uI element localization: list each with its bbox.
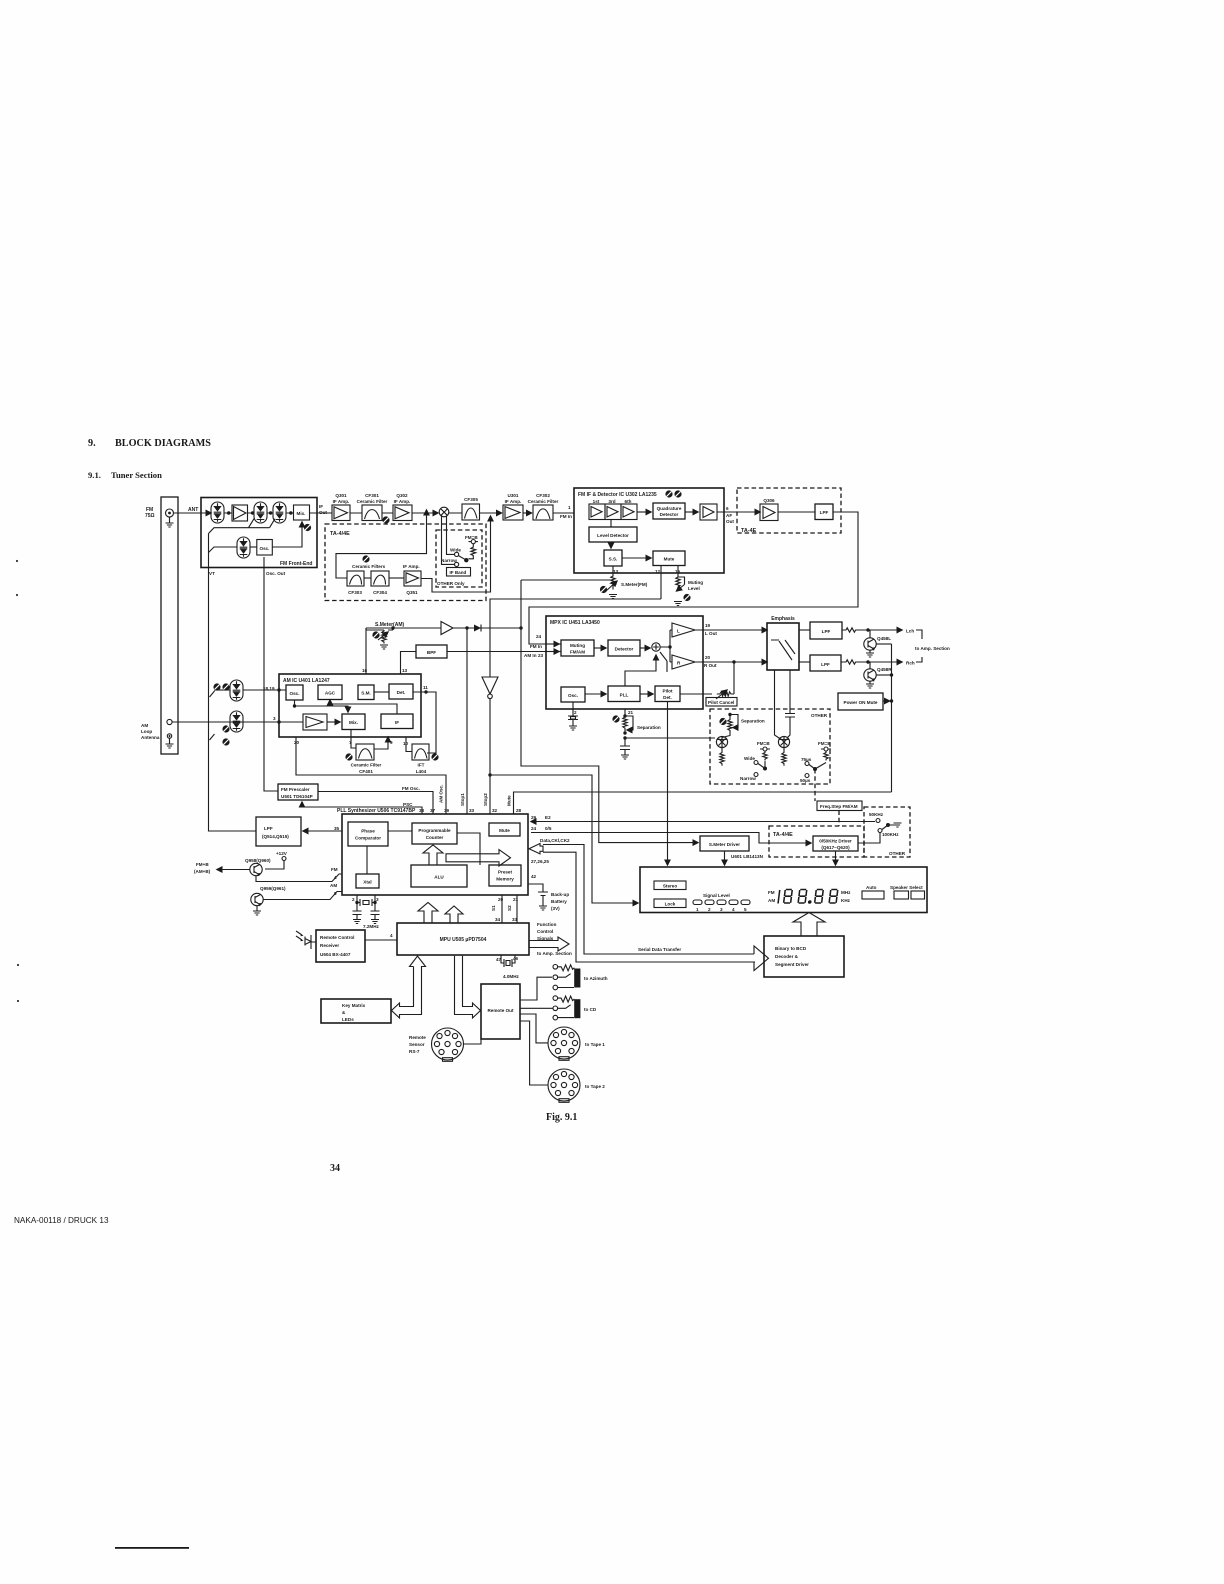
- Stop2 vertical label: [483, 793, 488, 806]
- svg-text:16: 16: [362, 668, 368, 673]
- trimmer pair in FM IF box: [665, 490, 681, 497]
- block arrows MPU-PLL: [418, 903, 463, 924]
- transistor Q959 Q961: [251, 883, 342, 915]
- emphasis cap wires into other box: [775, 670, 796, 739]
- svg-text:OTHER: OTHER: [811, 713, 828, 718]
- pilot cancel pot: [680, 660, 736, 699]
- svg-text:Fig. 9.1: Fig. 9.1: [546, 1112, 577, 1123]
- svg-text:Sensor: Sensor: [409, 1042, 425, 1047]
- MPX Detector block: [594, 640, 640, 656]
- svg-text:Muting: Muting: [570, 643, 585, 648]
- svg-text:R: R: [677, 661, 681, 666]
- S.M. block: [358, 685, 374, 700]
- svg-text:Ceramic Filter: Ceramic Filter: [351, 763, 382, 768]
- CF303: [347, 571, 364, 595]
- svg-text:RS-7: RS-7: [409, 1049, 420, 1054]
- mixer block Mix.: [294, 505, 310, 520]
- svg-text:33: 33: [469, 808, 475, 813]
- svg-text:Osc.: Osc.: [260, 546, 270, 551]
- svg-text:Ceramic Filter: Ceramic Filter: [357, 499, 388, 504]
- dual gang pot 2: [778, 736, 789, 765]
- svg-text:Memory: Memory: [496, 877, 514, 882]
- local osc varactor: [237, 537, 250, 558]
- IFT L404: [412, 744, 429, 774]
- pin 13 s-meter pot: [600, 566, 648, 599]
- IF amp 1st: [589, 499, 605, 520]
- svg-text:TA-4/4E: TA-4/4E: [330, 531, 350, 537]
- wire VT tuning line down to LPF: [209, 534, 257, 832]
- svg-text:LPF: LPF: [822, 629, 831, 634]
- wide narrow switch other: [740, 741, 770, 781]
- svg-text:2: 2: [708, 907, 711, 912]
- wire counter to mute: [457, 833, 480, 865]
- Speaker Select buttons: [890, 885, 925, 899]
- varactor 1 trimmers: [213, 683, 229, 690]
- svg-text:38: 38: [419, 808, 425, 813]
- Mute block pll: [489, 823, 520, 836]
- svg-text:Speaker Select: Speaker Select: [890, 885, 923, 890]
- Muting FM/AM block: [546, 640, 594, 656]
- svg-text:1: 1: [696, 907, 699, 912]
- svg-text:Programmable: Programmable: [418, 828, 451, 833]
- bottom pins 2 3 crystal: [352, 895, 380, 929]
- svg-text:Pilot Cancel: Pilot Cancel: [708, 700, 734, 705]
- svg-text:Signal Level: Signal Level: [703, 893, 730, 898]
- svg-text:FM IF & Detector IC U302 LA123: FM IF & Detector IC U302 LA1235: [578, 492, 657, 498]
- svg-text:FM In: FM In: [560, 514, 572, 519]
- svg-text:20: 20: [294, 740, 300, 745]
- ALU block: [411, 865, 467, 887]
- svg-text:37: 37: [430, 808, 436, 813]
- svg-text:29: 29: [531, 815, 537, 820]
- svg-text:Q351: Q351: [406, 590, 418, 595]
- Freq Step FM/AM label box: [817, 801, 862, 811]
- pin 13 label: [402, 668, 408, 673]
- svg-text:FM Prescaler: FM Prescaler: [281, 787, 310, 792]
- svg-text:AGC: AGC: [325, 691, 336, 696]
- svg-text:S.Meter Driver: S.Meter Driver: [709, 842, 740, 847]
- svg-text:CF301: CF301: [365, 493, 379, 498]
- IF amp 6th: [621, 499, 637, 520]
- svg-text:Rch: Rch: [906, 661, 915, 666]
- svg-text:+12V: +12V: [276, 851, 288, 856]
- wire 0/50 driver to display: [835, 851, 837, 865]
- AGC block: [318, 685, 342, 700]
- svg-text:S.S.: S.S.: [609, 557, 618, 562]
- svg-text:Detector: Detector: [615, 647, 634, 652]
- svg-text:9: 9: [390, 740, 393, 745]
- svg-text:Key Matrix: Key Matrix: [342, 1003, 366, 1008]
- Remote Out block: [481, 984, 520, 1039]
- pin 11 wire to IFT: [413, 685, 436, 753]
- wire BPF input from AM det pin 13: [401, 652, 417, 675]
- svg-text:FM Front-End: FM Front-End: [280, 561, 313, 567]
- s-meter AM pot: [366, 626, 395, 649]
- Emphasis block: [767, 616, 799, 670]
- pin 19 L Out: [695, 623, 767, 636]
- S.S. block: [604, 542, 622, 566]
- svg-text:Segment Driver: Segment Driver: [775, 962, 809, 967]
- Auto button: [862, 885, 884, 899]
- IF block: [381, 714, 413, 729]
- svg-text:Q959(Q961): Q959(Q961): [260, 886, 286, 891]
- svg-text:3: 3: [273, 716, 276, 721]
- svg-text:&: &: [342, 1010, 346, 1015]
- svg-text:L404: L404: [416, 769, 427, 774]
- IF amp 3rd: [605, 499, 621, 520]
- bottom rule: [115, 1547, 189, 1549]
- wire mixer to band switch: [442, 516, 455, 565]
- Remote Control Receiver block: [316, 930, 397, 962]
- svg-text:FM: FM: [331, 867, 338, 872]
- svg-text:U301: U301: [508, 493, 519, 498]
- svg-text:Back-up: Back-up: [551, 892, 569, 897]
- pin 20 label: [294, 740, 300, 745]
- mixer switch circle: [439, 507, 449, 517]
- MPX Osc block: [561, 687, 585, 702]
- svg-text:23: 23: [538, 653, 544, 658]
- varactor 2 trimmers: [222, 725, 229, 745]
- af amp: [685, 504, 717, 520]
- signal level segments: [693, 900, 750, 912]
- svg-text:Binary to BCD: Binary to BCD: [775, 946, 807, 951]
- svg-text:0/50KHz Driver: 0/50KHz Driver: [819, 839, 852, 844]
- wire Q351 return to main line: [421, 516, 491, 592]
- svg-text:2: 2: [352, 897, 355, 902]
- pin 16 label: [362, 668, 368, 673]
- trimmer after CF301: [382, 516, 389, 523]
- svg-text:Function: Function: [537, 922, 557, 927]
- transistor Q458R: [864, 662, 892, 688]
- PLL Synthesizer U506 TC9147BP box: [337, 808, 528, 895]
- svg-text:Lch: Lch: [906, 629, 914, 634]
- U601 LB1413N label: [731, 854, 764, 859]
- block arrow ALU to counter: [423, 845, 443, 865]
- wire pilot det to stereo: [667, 702, 669, 866]
- function control arrow: [529, 922, 572, 956]
- transistor Q958 Q960: [217, 858, 271, 876]
- svg-text:9.1.: 9.1.: [88, 470, 101, 480]
- svg-text:Osc.: Osc.: [568, 693, 578, 698]
- OTHER Only dashed box: [436, 530, 482, 587]
- FM+B AM+B label: [194, 862, 211, 874]
- Power ON Mute block: [838, 693, 890, 710]
- svg-text:Level Detector: Level Detector: [597, 533, 629, 538]
- svg-text:34: 34: [495, 917, 501, 922]
- Q301 IF Amp: [332, 493, 350, 521]
- OTHER dashed box lower: [710, 709, 830, 784]
- IF Out label: [319, 504, 327, 515]
- svg-text:IF Amp.: IF Amp.: [394, 499, 411, 504]
- wire smeter driver to display: [724, 851, 726, 865]
- svg-text:OTHER Only: OTHER Only: [437, 581, 465, 586]
- agc feedback wire: [330, 700, 397, 714]
- svg-text:AM: AM: [330, 883, 337, 888]
- wire ANT to front-end: [174, 512, 212, 514]
- AM Loop Antenna label: [141, 723, 160, 740]
- top pin numbers: [419, 808, 522, 813]
- svg-text:Muting: Muting: [688, 580, 703, 585]
- Programmable Counter block: [388, 823, 457, 844]
- svg-text:AM: AM: [768, 898, 775, 903]
- svg-text:Level: Level: [688, 586, 700, 591]
- svg-text:4: 4: [390, 933, 393, 938]
- svg-text:MPX IC U451 LA3450: MPX IC U451 LA3450: [550, 620, 600, 626]
- Quadrature Detector: [653, 503, 685, 519]
- svg-text:6th: 6th: [625, 499, 632, 504]
- block arrow BCD to display: [793, 913, 825, 937]
- pin 4 label: [390, 933, 393, 938]
- svg-text:12: 12: [655, 569, 661, 574]
- wire AM osc out pin 20 to PLL pin 39: [296, 737, 446, 814]
- svg-text:100KHz: 100KHz: [882, 832, 899, 837]
- to Amp Section bracket: [915, 630, 950, 662]
- antenna terminal board: [161, 497, 178, 754]
- svg-text:Mix.: Mix.: [297, 511, 306, 516]
- front-end signal line segments: [224, 512, 317, 514]
- svg-text:Receiver: Receiver: [320, 943, 339, 948]
- dashed link freq step to TA box: [838, 811, 840, 827]
- pin 24 FM In labels: [530, 634, 542, 649]
- pins 27 26 25 label: [531, 859, 549, 864]
- mute inverter triangle: [482, 599, 661, 775]
- Phase Comparator block: [348, 822, 388, 846]
- wire sum to L R amps: [660, 630, 672, 662]
- VT label: [209, 571, 215, 576]
- wire and diode to node: [453, 625, 523, 632]
- svg-text:Phase: Phase: [361, 829, 375, 834]
- svg-text:PLL: PLL: [620, 693, 629, 698]
- svg-text:FM/AM: FM/AM: [570, 650, 585, 655]
- svg-text:IF Amp.: IF Amp.: [333, 499, 350, 504]
- svg-text:32: 32: [492, 808, 498, 813]
- svg-text:Stereo: Stereo: [663, 884, 677, 889]
- svg-text:Preset: Preset: [498, 870, 513, 875]
- FM+B band switch: [441, 535, 478, 567]
- svg-text:AM: AM: [141, 723, 148, 728]
- MPX IC U451 LA3450 box: [546, 616, 703, 709]
- svg-text:Comparator: Comparator: [355, 836, 381, 841]
- svg-text:20: 20: [498, 897, 504, 902]
- pin 20 R Out: [695, 655, 767, 668]
- svg-text:U601 LB1413N: U601 LB1413N: [731, 854, 764, 859]
- svg-text:13: 13: [402, 668, 408, 673]
- LPF right channel: [799, 655, 841, 671]
- to Azimuth jack: [553, 965, 608, 990]
- osc block Osc.: [250, 540, 272, 556]
- svg-text:U604 BX-4407: U604 BX-4407: [320, 952, 351, 957]
- to Tape 1 connector: [548, 1027, 605, 1060]
- wire osc out down to prescaler: [264, 557, 278, 791]
- Osc Out label: [266, 571, 286, 576]
- TA-4E dashed output region: [737, 488, 841, 534]
- svg-text:2: 2: [574, 710, 577, 715]
- svg-text:50µs: 50µs: [800, 778, 811, 783]
- svg-text:Freq.Step FM/AM: Freq.Step FM/AM: [820, 804, 858, 809]
- svg-text:CF304: CF304: [373, 590, 387, 595]
- TA-4/4E dashed box driver: [769, 826, 864, 857]
- svg-text:U501 TD6104P: U501 TD6104P: [281, 794, 313, 799]
- svg-text:S.M.: S.M.: [361, 691, 370, 696]
- svg-text:3rd: 3rd: [608, 499, 615, 504]
- svg-text:R Out: R Out: [704, 663, 717, 668]
- seven segment 188.88: [778, 890, 838, 904]
- L resistor and out: [842, 628, 914, 634]
- LPF Q514 Q515 block: [256, 817, 301, 846]
- pin 1 FM In labels: [560, 505, 572, 519]
- trimmer above ceramic filters: [362, 555, 369, 562]
- svg-text:Q306: Q306: [763, 498, 775, 503]
- FM IF & Detector IC U302 LA1235 box: [574, 488, 724, 573]
- Stereo indicator: [654, 881, 686, 890]
- svg-text:PSC: PSC: [403, 802, 413, 807]
- svg-text:Lock: Lock: [665, 902, 676, 907]
- svg-text:Antenna: Antenna: [141, 735, 160, 740]
- svg-text:to Amp. Section: to Amp. Section: [915, 646, 950, 651]
- svg-text:FM: FM: [768, 890, 775, 895]
- hollow elbow MPU remote out: [455, 956, 481, 1018]
- S.Meter Driver block: [700, 836, 749, 851]
- block arrow ALU to preset memory: [446, 850, 511, 866]
- svg-text:Det.: Det.: [397, 690, 406, 695]
- svg-text:MPU U505 µPD7504: MPU U505 µPD7504: [440, 937, 487, 943]
- svg-text:Control: Control: [537, 929, 553, 934]
- IFT trimmer: [431, 753, 438, 760]
- svg-text:OTHER: OTHER: [889, 851, 906, 856]
- svg-text:AM IC U401 LA1247: AM IC U401 LA1247: [283, 678, 330, 684]
- node dots on front-end line: [227, 511, 292, 514]
- dashed gang link to freq step: [814, 769, 816, 801]
- svg-text:E2: E2: [545, 815, 551, 820]
- svg-text:BPF: BPF: [427, 650, 436, 655]
- svg-text:IF Amp.: IF Amp.: [505, 499, 522, 504]
- svg-text:11: 11: [423, 685, 428, 690]
- Q306 amp: [760, 498, 778, 521]
- TA-4/4E dashed region: [325, 524, 486, 601]
- pin 15 muting level pot: [674, 566, 703, 606]
- svg-text:S.Meter(AM): S.Meter(AM): [375, 622, 405, 628]
- svg-text:MHz: MHz: [841, 890, 851, 895]
- svg-text:FM In: FM In: [530, 644, 542, 649]
- serial data wires: [543, 845, 769, 971]
- wire VT to AM varactors jogs: [210, 691, 215, 740]
- svg-text:Out: Out: [726, 519, 734, 524]
- svg-text:CF303: CF303: [348, 590, 362, 595]
- svg-text:50KHz: 50KHz: [869, 812, 884, 817]
- PSC wire: [302, 802, 422, 814]
- Stop1 vertical label: [460, 793, 465, 806]
- svg-text:(AM+B): (AM+B): [194, 869, 211, 874]
- svg-text:to Tape 1: to Tape 1: [585, 1042, 605, 1047]
- svg-text:Q301: Q301: [335, 493, 347, 498]
- pin 3 wire: [172, 716, 303, 724]
- ANT label: [188, 507, 198, 513]
- svg-text:Stop2: Stop2: [483, 793, 488, 806]
- pin 23 AM In labels: [524, 653, 544, 658]
- AM Osc block: [286, 685, 303, 700]
- svg-text:Detector: Detector: [660, 512, 679, 517]
- svg-text:3: 3: [720, 907, 723, 912]
- svg-text:KHz: KHz: [841, 898, 851, 903]
- svg-text:Narrow: Narrow: [441, 558, 457, 563]
- pin 21 separation pot: [612, 709, 661, 759]
- CF301 Ceramic Filter: [357, 493, 388, 521]
- Ceramic Filters label: [352, 564, 386, 569]
- svg-text:CF305: CF305: [464, 497, 478, 502]
- to Tape 2 connector: [548, 1069, 605, 1102]
- LPF left channel: [799, 622, 842, 639]
- svg-text:13: 13: [613, 569, 619, 574]
- svg-text:Mute: Mute: [499, 828, 510, 833]
- svg-text:Q958(Q960): Q958(Q960): [245, 858, 271, 863]
- Key Matrix block: [321, 999, 391, 1023]
- AM Osc vertical label: [439, 785, 444, 803]
- BPF block: [416, 645, 447, 658]
- svg-text:6: 6: [726, 506, 729, 511]
- +12V terminal: [265, 851, 288, 869]
- svg-text:Mute: Mute: [664, 557, 675, 562]
- IF Amp Q351: [389, 564, 421, 595]
- varactor tuned stage 2: [254, 502, 267, 523]
- svg-text:28: 28: [516, 808, 522, 813]
- svg-text:LPF: LPF: [820, 510, 829, 515]
- svg-text:Wide: Wide: [450, 548, 461, 553]
- wire PLL to sum: [625, 655, 656, 686]
- pin 35 wire to LPF: [303, 826, 342, 831]
- svg-text:19: 19: [705, 623, 711, 628]
- svg-text:Auto: Auto: [866, 885, 877, 890]
- display panel box: [640, 867, 927, 913]
- right pin 24 0/5 wire: [531, 826, 811, 843]
- wire BPF out to MPX AM In: [447, 651, 559, 653]
- svg-text:Loop: Loop: [141, 729, 152, 734]
- svg-text:IFT: IFT: [418, 763, 425, 768]
- IR photodiode: [296, 931, 316, 949]
- Q302 IF Amp: [393, 493, 412, 521]
- svg-text:3: 3: [376, 897, 379, 902]
- svg-text:42: 42: [531, 874, 537, 879]
- svg-text:BLOCK DIAGRAMS: BLOCK DIAGRAMS: [115, 438, 211, 449]
- serial data transfer label: [638, 947, 681, 952]
- mute rail from power-on-mute: [514, 792, 892, 814]
- FM Prescaler block: [278, 784, 318, 800]
- svg-text:24: 24: [536, 634, 542, 639]
- svg-text:Emphasis: Emphasis: [771, 616, 795, 622]
- svg-text:20: 20: [705, 655, 711, 660]
- svg-text:Remote: Remote: [409, 1035, 426, 1040]
- 50KHz 100KHz switch: [869, 812, 902, 837]
- transistor Q458L: [864, 630, 892, 657]
- wire meter join down to S.Meter Driver: [521, 580, 698, 843]
- svg-text:IF Band: IF Band: [450, 570, 467, 575]
- svg-text:7.2MHz: 7.2MHz: [363, 924, 380, 929]
- wire AF to MPX FM In: [529, 512, 858, 644]
- Binary to BCD block: [764, 936, 844, 977]
- svg-text:L: L: [677, 629, 680, 634]
- svg-text:IF: IF: [395, 720, 399, 725]
- margin specks: [16, 560, 19, 1002]
- svg-text:FM+B: FM+B: [196, 862, 209, 867]
- svg-text:AM Osc.: AM Osc.: [439, 785, 444, 803]
- svg-text:Data,CKl,CK2: Data,CKl,CK2: [540, 838, 570, 843]
- svg-text:Decoder &: Decoder &: [775, 954, 799, 959]
- svg-text:NAKA-00118 / DRUCK 13: NAKA-00118 / DRUCK 13: [14, 1216, 109, 1225]
- Level Detector: [589, 520, 637, 543]
- svg-text:0/5: 0/5: [545, 826, 552, 831]
- pin 7 wire: [349, 730, 356, 749]
- svg-text:S.Meter(FM): S.Meter(FM): [621, 582, 648, 587]
- svg-text:Pilot: Pilot: [663, 689, 673, 694]
